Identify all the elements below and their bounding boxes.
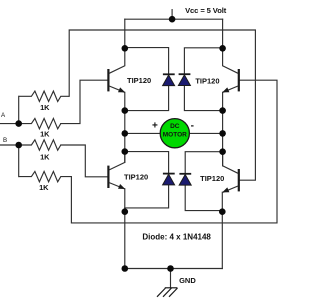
node B bbox=[15, 142, 22, 149]
node right D4 cathode bbox=[219, 148, 226, 155]
svg-text:TIP120: TIP120 bbox=[124, 173, 148, 182]
wire right column Q2 emitter to Q4 collector bbox=[222, 92, 224, 166]
svg-text:1K: 1K bbox=[39, 183, 49, 192]
svg-text:-: - bbox=[191, 120, 194, 131]
node Q2 collector bbox=[219, 45, 226, 52]
wire Vcc rail right drop to Q2 collector node bbox=[222, 19, 224, 48]
wire left column Q1 emitter to Q3 collector bbox=[124, 92, 126, 162]
wire D2 anode down-right to right column bbox=[184, 86, 222, 111]
diode D4 (bottom-right 1N4148) bbox=[179, 174, 191, 185]
node right D2 anode bbox=[219, 107, 226, 114]
wire R2 to Q1 base bbox=[61, 80, 108, 123]
wire D1 anode down-left to left column bbox=[125, 86, 169, 111]
svg-text:Diode: 4 x 1N4148: Diode: 4 x 1N4148 bbox=[142, 232, 211, 241]
node GND rail left end bbox=[122, 265, 129, 272]
wire D4 cathode to right column bbox=[185, 152, 222, 174]
diode D1 (top-left 1N4148) bbox=[163, 74, 175, 85]
wire A node up to R1 bbox=[18, 96, 20, 123]
svg-text:1K: 1K bbox=[40, 153, 50, 162]
svg-text:DC: DC bbox=[170, 123, 180, 130]
resistor R1 bbox=[19, 91, 69, 101]
wire Vcc stub bbox=[171, 10, 173, 20]
wire diode D2 top to Q2 collector node bbox=[184, 48, 222, 74]
transistor Q4 (bottom-right TIP120, mirrored) bbox=[222, 152, 239, 193]
node left D3 cathode bbox=[122, 148, 129, 155]
svg-text:GND: GND bbox=[179, 276, 196, 285]
wire input A lead bbox=[0, 123, 19, 125]
svg-text:B: B bbox=[3, 137, 7, 144]
wire R3 to Q3 base bbox=[61, 145, 108, 177]
resistor R2 bbox=[19, 118, 61, 128]
svg-text:1K: 1K bbox=[40, 129, 50, 138]
resistor R4 bbox=[19, 171, 72, 181]
wire Q1 collector node to diode D1 top bbox=[125, 48, 169, 74]
wire Q3 emitter down to GND rail bbox=[124, 189, 126, 269]
node GND stub bbox=[167, 265, 174, 272]
wire left column to D3 cathode bbox=[125, 152, 169, 174]
node Q3 emitter junction bbox=[122, 208, 129, 215]
wire B node down to R4 bbox=[18, 145, 20, 177]
wire Vcc rail left drop to Q1 collector node bbox=[124, 19, 126, 48]
wire input B lead bbox=[0, 144, 19, 146]
wire motor right lead bbox=[189, 132, 222, 134]
diode D3 (bottom-left 1N4148) bbox=[163, 174, 175, 185]
transistor Q1 (top-left TIP120) bbox=[108, 48, 125, 92]
svg-text:Vcc = 5 Volt: Vcc = 5 Volt bbox=[185, 6, 227, 15]
diode D2 (top-right 1N4148) bbox=[178, 74, 190, 85]
node right motor bbox=[219, 130, 226, 137]
wire GND rail bbox=[125, 268, 223, 270]
svg-text:TIP120: TIP120 bbox=[200, 174, 224, 183]
svg-text:+: + bbox=[152, 120, 158, 131]
svg-text:TIP120: TIP120 bbox=[195, 77, 219, 86]
DC motor M1 bbox=[160, 119, 189, 148]
wire B-resistor R4 to top-right base (via bottom rail) bbox=[71, 80, 277, 223]
node left D1 anode bbox=[122, 107, 129, 114]
wire D4 anode to Q4 emitter column bbox=[185, 185, 222, 211]
wire D3 anode to Q3 emitter column bbox=[125, 185, 169, 208]
node A bbox=[15, 120, 22, 127]
transistor Q2 (top-right TIP120, mirrored) bbox=[222, 48, 239, 92]
ground symbol bbox=[157, 288, 178, 297]
wire motor left lead bbox=[125, 132, 160, 134]
node Vcc junction bbox=[169, 16, 176, 23]
wire Q4 emitter down to GND rail corner bbox=[221, 192, 223, 268]
wire A-resistor R1 to bottom-right base (via top horizontal) bbox=[69, 30, 255, 180]
resistor R3 bbox=[19, 140, 61, 150]
svg-text:1K: 1K bbox=[40, 103, 50, 112]
svg-text:TIP120: TIP120 bbox=[127, 76, 151, 85]
svg-text:MOTOR: MOTOR bbox=[163, 132, 187, 139]
node left motor bbox=[122, 130, 129, 137]
transistor Q3 (bottom-left TIP120) bbox=[108, 152, 125, 189]
wire Vcc rail bbox=[125, 18, 223, 20]
node Q4 emitter junction bbox=[219, 208, 226, 215]
node Q1 collector bbox=[122, 45, 129, 52]
wire GND stub bbox=[170, 269, 172, 288]
